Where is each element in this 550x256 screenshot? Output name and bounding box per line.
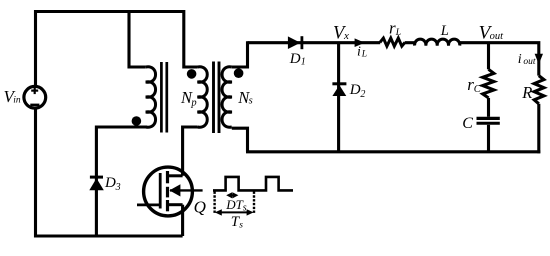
svg-text:Q: Q <box>194 198 206 217</box>
svg-text:s: s <box>249 96 253 107</box>
svg-text:3: 3 <box>115 182 121 193</box>
svg-text:s: s <box>239 220 243 230</box>
svg-text:L: L <box>361 50 367 60</box>
svg-text:L: L <box>440 23 449 39</box>
svg-text:D: D <box>349 82 361 98</box>
svg-text:2: 2 <box>360 89 365 100</box>
svg-text:out: out <box>490 31 505 42</box>
svg-text:i: i <box>518 52 522 67</box>
svg-text:x: x <box>343 30 349 42</box>
svg-text:1: 1 <box>301 57 306 68</box>
svg-text:i: i <box>357 45 361 60</box>
svg-text:C: C <box>474 84 482 95</box>
svg-text:in: in <box>13 95 21 105</box>
svg-text:D: D <box>289 51 301 67</box>
svg-text:DT: DT <box>225 197 243 212</box>
svg-text:D: D <box>104 175 116 191</box>
svg-text:p: p <box>190 98 196 109</box>
svg-text:R: R <box>521 83 532 102</box>
svg-text:C: C <box>462 115 473 132</box>
svg-text:out: out <box>523 57 536 67</box>
svg-text:s: s <box>243 203 247 214</box>
svg-text:L: L <box>395 28 401 38</box>
